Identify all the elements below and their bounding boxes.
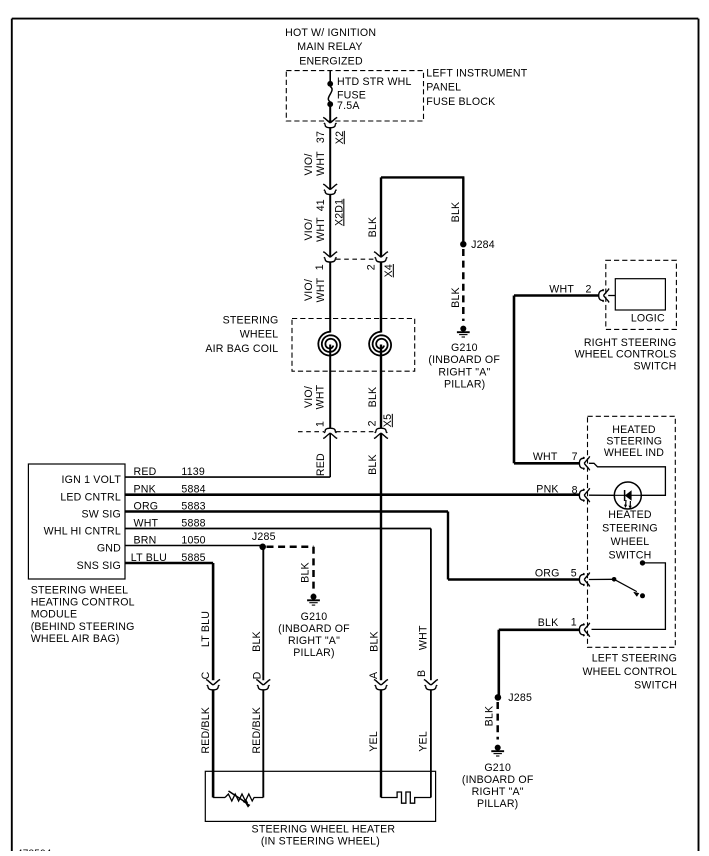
svg-text:A: A (368, 671, 380, 679)
svg-text:1139: 1139 (181, 466, 205, 478)
svg-text:ORG: ORG (535, 568, 560, 580)
svg-text:VIO/: VIO/ (303, 154, 315, 176)
svg-text:(BEHIND STEERING: (BEHIND STEERING (31, 621, 135, 633)
svg-text:X4: X4 (383, 264, 395, 277)
svg-text:8: 8 (572, 484, 578, 496)
svg-text:LEFT INSTRUMENT: LEFT INSTRUMENT (426, 67, 527, 79)
svg-text:X5: X5 (382, 414, 394, 427)
svg-text:B: B (416, 670, 428, 677)
svg-text:AIR BAG COIL: AIR BAG COIL (205, 343, 278, 355)
svg-text:WHEEL AIR BAG): WHEEL AIR BAG) (31, 633, 120, 645)
svg-text:STEERING: STEERING (606, 435, 662, 447)
svg-text:7: 7 (572, 451, 578, 463)
svg-text:X2D1: X2D1 (333, 199, 345, 226)
svg-text:G210: G210 (484, 762, 511, 774)
svg-text:ENERGIZED: ENERGIZED (299, 55, 363, 67)
svg-text:WHEEL CONTROL: WHEEL CONTROL (582, 666, 677, 678)
svg-text:BLK: BLK (450, 287, 462, 308)
svg-text:7.5A: 7.5A (337, 100, 360, 112)
svg-text:LED CNTRL: LED CNTRL (60, 492, 121, 504)
svg-text:41: 41 (315, 199, 327, 211)
svg-text:5884: 5884 (181, 484, 205, 496)
svg-text:1050: 1050 (181, 535, 205, 547)
svg-text:BLK: BLK (367, 387, 379, 408)
svg-text:5: 5 (571, 568, 577, 580)
svg-text:LT BLU: LT BLU (200, 611, 212, 647)
svg-text:PNK: PNK (134, 484, 156, 496)
svg-text:BLK: BLK (299, 562, 311, 583)
svg-text:YEL: YEL (368, 731, 380, 752)
svg-text:1: 1 (314, 264, 326, 270)
svg-text:PILLAR): PILLAR) (293, 647, 334, 659)
svg-text:RED/BLK: RED/BLK (200, 707, 212, 754)
svg-text:2: 2 (365, 264, 377, 270)
svg-text:HEATING CONTROL: HEATING CONTROL (31, 597, 135, 609)
svg-text:1: 1 (315, 421, 327, 427)
svg-text:G210: G210 (301, 611, 328, 623)
svg-text:(INBOARD OF: (INBOARD OF (278, 623, 350, 635)
svg-text:PNK: PNK (536, 483, 558, 495)
svg-text:BLK: BLK (367, 454, 379, 475)
svg-text:WHEEL: WHEEL (611, 536, 650, 548)
svg-text:WHEEL CONTROLS: WHEEL CONTROLS (575, 349, 677, 361)
svg-text:HTD STR WHL: HTD STR WHL (337, 76, 412, 88)
svg-text:WHT: WHT (315, 217, 327, 242)
svg-text:BRN: BRN (134, 535, 157, 547)
svg-text:G210: G210 (451, 342, 478, 354)
svg-text:WHT: WHT (315, 384, 327, 409)
svg-text:WHT: WHT (533, 451, 558, 463)
svg-text:X2: X2 (334, 131, 346, 144)
svg-text:HOT W/ IGNITION: HOT W/ IGNITION (285, 27, 376, 39)
svg-text:STEERING WHEEL HEATER: STEERING WHEEL HEATER (252, 823, 396, 835)
svg-text:WHT: WHT (315, 151, 327, 176)
svg-text:FUSE BLOCK: FUSE BLOCK (426, 96, 495, 108)
svg-text:SW SIG: SW SIG (82, 508, 121, 520)
svg-text:BLK: BLK (367, 217, 379, 238)
svg-text:PILLAR): PILLAR) (444, 378, 485, 390)
svg-text:WHT: WHT (549, 284, 574, 296)
svg-text:5883: 5883 (181, 501, 205, 513)
svg-text:VIO/: VIO/ (303, 386, 315, 408)
svg-text:J285: J285 (508, 692, 532, 704)
svg-text:ORG: ORG (134, 501, 159, 513)
svg-text:PILLAR): PILLAR) (477, 798, 518, 810)
svg-text:BLK: BLK (251, 631, 263, 652)
svg-text:VIO/: VIO/ (303, 219, 315, 241)
svg-text:WHT: WHT (315, 277, 327, 302)
svg-text:RED: RED (134, 466, 157, 478)
svg-text:WHT: WHT (418, 625, 430, 650)
svg-text:LEFT STEERING: LEFT STEERING (592, 652, 677, 664)
svg-text:SWITCH: SWITCH (634, 679, 677, 691)
svg-text:WHL HI CNTRL: WHL HI CNTRL (44, 525, 121, 537)
svg-text:GND: GND (97, 542, 121, 554)
svg-text:SWITCH: SWITCH (634, 360, 677, 372)
svg-text:RIGHT "A": RIGHT "A" (288, 635, 340, 647)
svg-text:RED: RED (315, 453, 327, 476)
svg-text:STEERING WHEEL: STEERING WHEEL (31, 585, 129, 597)
svg-text:YEL: YEL (417, 731, 429, 752)
svg-text:2: 2 (585, 284, 591, 296)
svg-text:37: 37 (315, 131, 327, 143)
svg-text:5885: 5885 (181, 552, 205, 564)
svg-text:WHEEL IND: WHEEL IND (604, 447, 664, 459)
svg-text:BLK: BLK (450, 202, 462, 223)
svg-text:J284: J284 (471, 239, 495, 251)
svg-text:BLK: BLK (483, 706, 495, 727)
svg-text:5888: 5888 (181, 518, 205, 530)
svg-text:(INBOARD OF: (INBOARD OF (428, 354, 500, 366)
svg-text:HEATED: HEATED (612, 424, 656, 436)
svg-text:SNS SIG: SNS SIG (77, 560, 121, 572)
svg-text:MAIN RELAY: MAIN RELAY (297, 41, 362, 53)
svg-text:RED/BLK: RED/BLK (251, 707, 263, 754)
svg-text:STEERING: STEERING (602, 522, 658, 534)
svg-text:SWITCH: SWITCH (609, 549, 652, 561)
svg-text:(IN STEERING WHEEL): (IN STEERING WHEEL) (261, 836, 380, 848)
svg-text:PANEL: PANEL (426, 82, 461, 94)
svg-text:LOGIC: LOGIC (631, 312, 665, 324)
svg-text:LT BLU: LT BLU (131, 552, 167, 564)
svg-text:RIGHT "A": RIGHT "A" (438, 366, 490, 378)
svg-text:HEATED: HEATED (608, 509, 652, 521)
svg-text:RIGHT "A": RIGHT "A" (472, 786, 524, 798)
svg-text:RIGHT STEERING: RIGHT STEERING (584, 337, 677, 349)
svg-text:1: 1 (571, 616, 577, 628)
svg-text:MODULE: MODULE (31, 609, 78, 621)
svg-text:VIO/: VIO/ (303, 279, 315, 301)
svg-text:2: 2 (366, 420, 378, 426)
svg-text:STEERING: STEERING (223, 314, 279, 326)
svg-text:C: C (200, 671, 212, 679)
svg-text:IGN 1 VOLT: IGN 1 VOLT (62, 474, 122, 486)
svg-text:D: D (252, 671, 264, 679)
svg-text:BLK: BLK (369, 631, 381, 652)
svg-text:BLK: BLK (538, 617, 559, 629)
svg-text:J285: J285 (252, 531, 276, 543)
svg-text:WHT: WHT (134, 518, 159, 530)
svg-text:(INBOARD OF: (INBOARD OF (462, 774, 534, 786)
svg-text:WHEEL: WHEEL (240, 329, 279, 341)
